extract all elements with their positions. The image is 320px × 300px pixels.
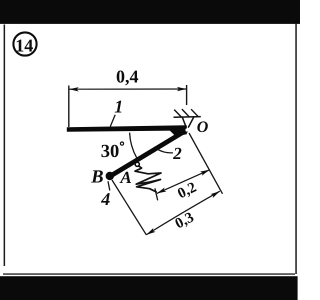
junction wedge at O bbox=[170, 126, 187, 137]
bar 1 (horizontal rod) bbox=[67, 125, 187, 132]
extension line from B bbox=[112, 180, 146, 235]
rod 2 (inclined) bbox=[110, 130, 187, 176]
label 2 leader line bbox=[157, 149, 173, 153]
dimension 0,4 left extension line bbox=[68, 86, 70, 128]
dimension 0,2 right arrow bbox=[200, 170, 210, 176]
label 4 leader line bbox=[108, 181, 110, 190]
svg-text:A: A bbox=[119, 168, 131, 187]
svg-text:14: 14 bbox=[15, 35, 33, 55]
label 1 leader line bbox=[110, 115, 115, 127]
pivot pin O bbox=[185, 128, 188, 131]
extension tick from A for 0,2 bbox=[155, 188, 158, 200]
svg-text:4: 4 bbox=[100, 189, 110, 209]
extension line from O bbox=[189, 133, 223, 194]
bottom hairline rule bbox=[3, 273, 295, 274]
top black band bbox=[0, 0, 300, 24]
dimension 0,4 left arrow bbox=[69, 87, 79, 91]
support triangle left leg bbox=[182, 117, 186, 127]
dimension 0,3 line bbox=[146, 191, 220, 235]
svg-text:2: 2 bbox=[172, 144, 182, 163]
dimension 0,2 line bbox=[157, 170, 210, 194]
svg-text:0,4: 0,4 bbox=[116, 66, 139, 86]
svg-text:B: B bbox=[90, 168, 103, 188]
dimension 0,4 line bbox=[69, 88, 186, 90]
point A ring on rod bbox=[135, 162, 139, 166]
spring 3 scribble bbox=[135, 166, 161, 192]
joint B dot bbox=[106, 172, 114, 180]
dimension 0,3 left arrow bbox=[146, 228, 155, 235]
svg-text:30: 30 bbox=[101, 142, 120, 162]
svg-text:1: 1 bbox=[114, 97, 123, 117]
dimension 0,2 left arrow bbox=[157, 188, 167, 194]
fixed support ceiling line at O bbox=[174, 116, 201, 119]
support triangle right leg bbox=[188, 117, 194, 128]
dimension 0,3 right arrow bbox=[211, 191, 220, 198]
support hatch 2 bbox=[182, 109, 189, 117]
support hatch 1 bbox=[174, 110, 181, 118]
bottom black band bbox=[0, 276, 298, 300]
left page rule bbox=[4, 25, 6, 267]
angle arc 30 deg bbox=[130, 133, 137, 159]
svg-text:O: O bbox=[197, 119, 209, 136]
dimension 0,4 right arrow bbox=[177, 87, 187, 91]
degree mark bbox=[120, 142, 123, 145]
support hatch 3 bbox=[191, 109, 198, 117]
problem number badge circle 14 bbox=[13, 32, 36, 55]
dimension 0,4 right extension line bbox=[186, 85, 188, 105]
right page rule bbox=[295, 24, 297, 274]
